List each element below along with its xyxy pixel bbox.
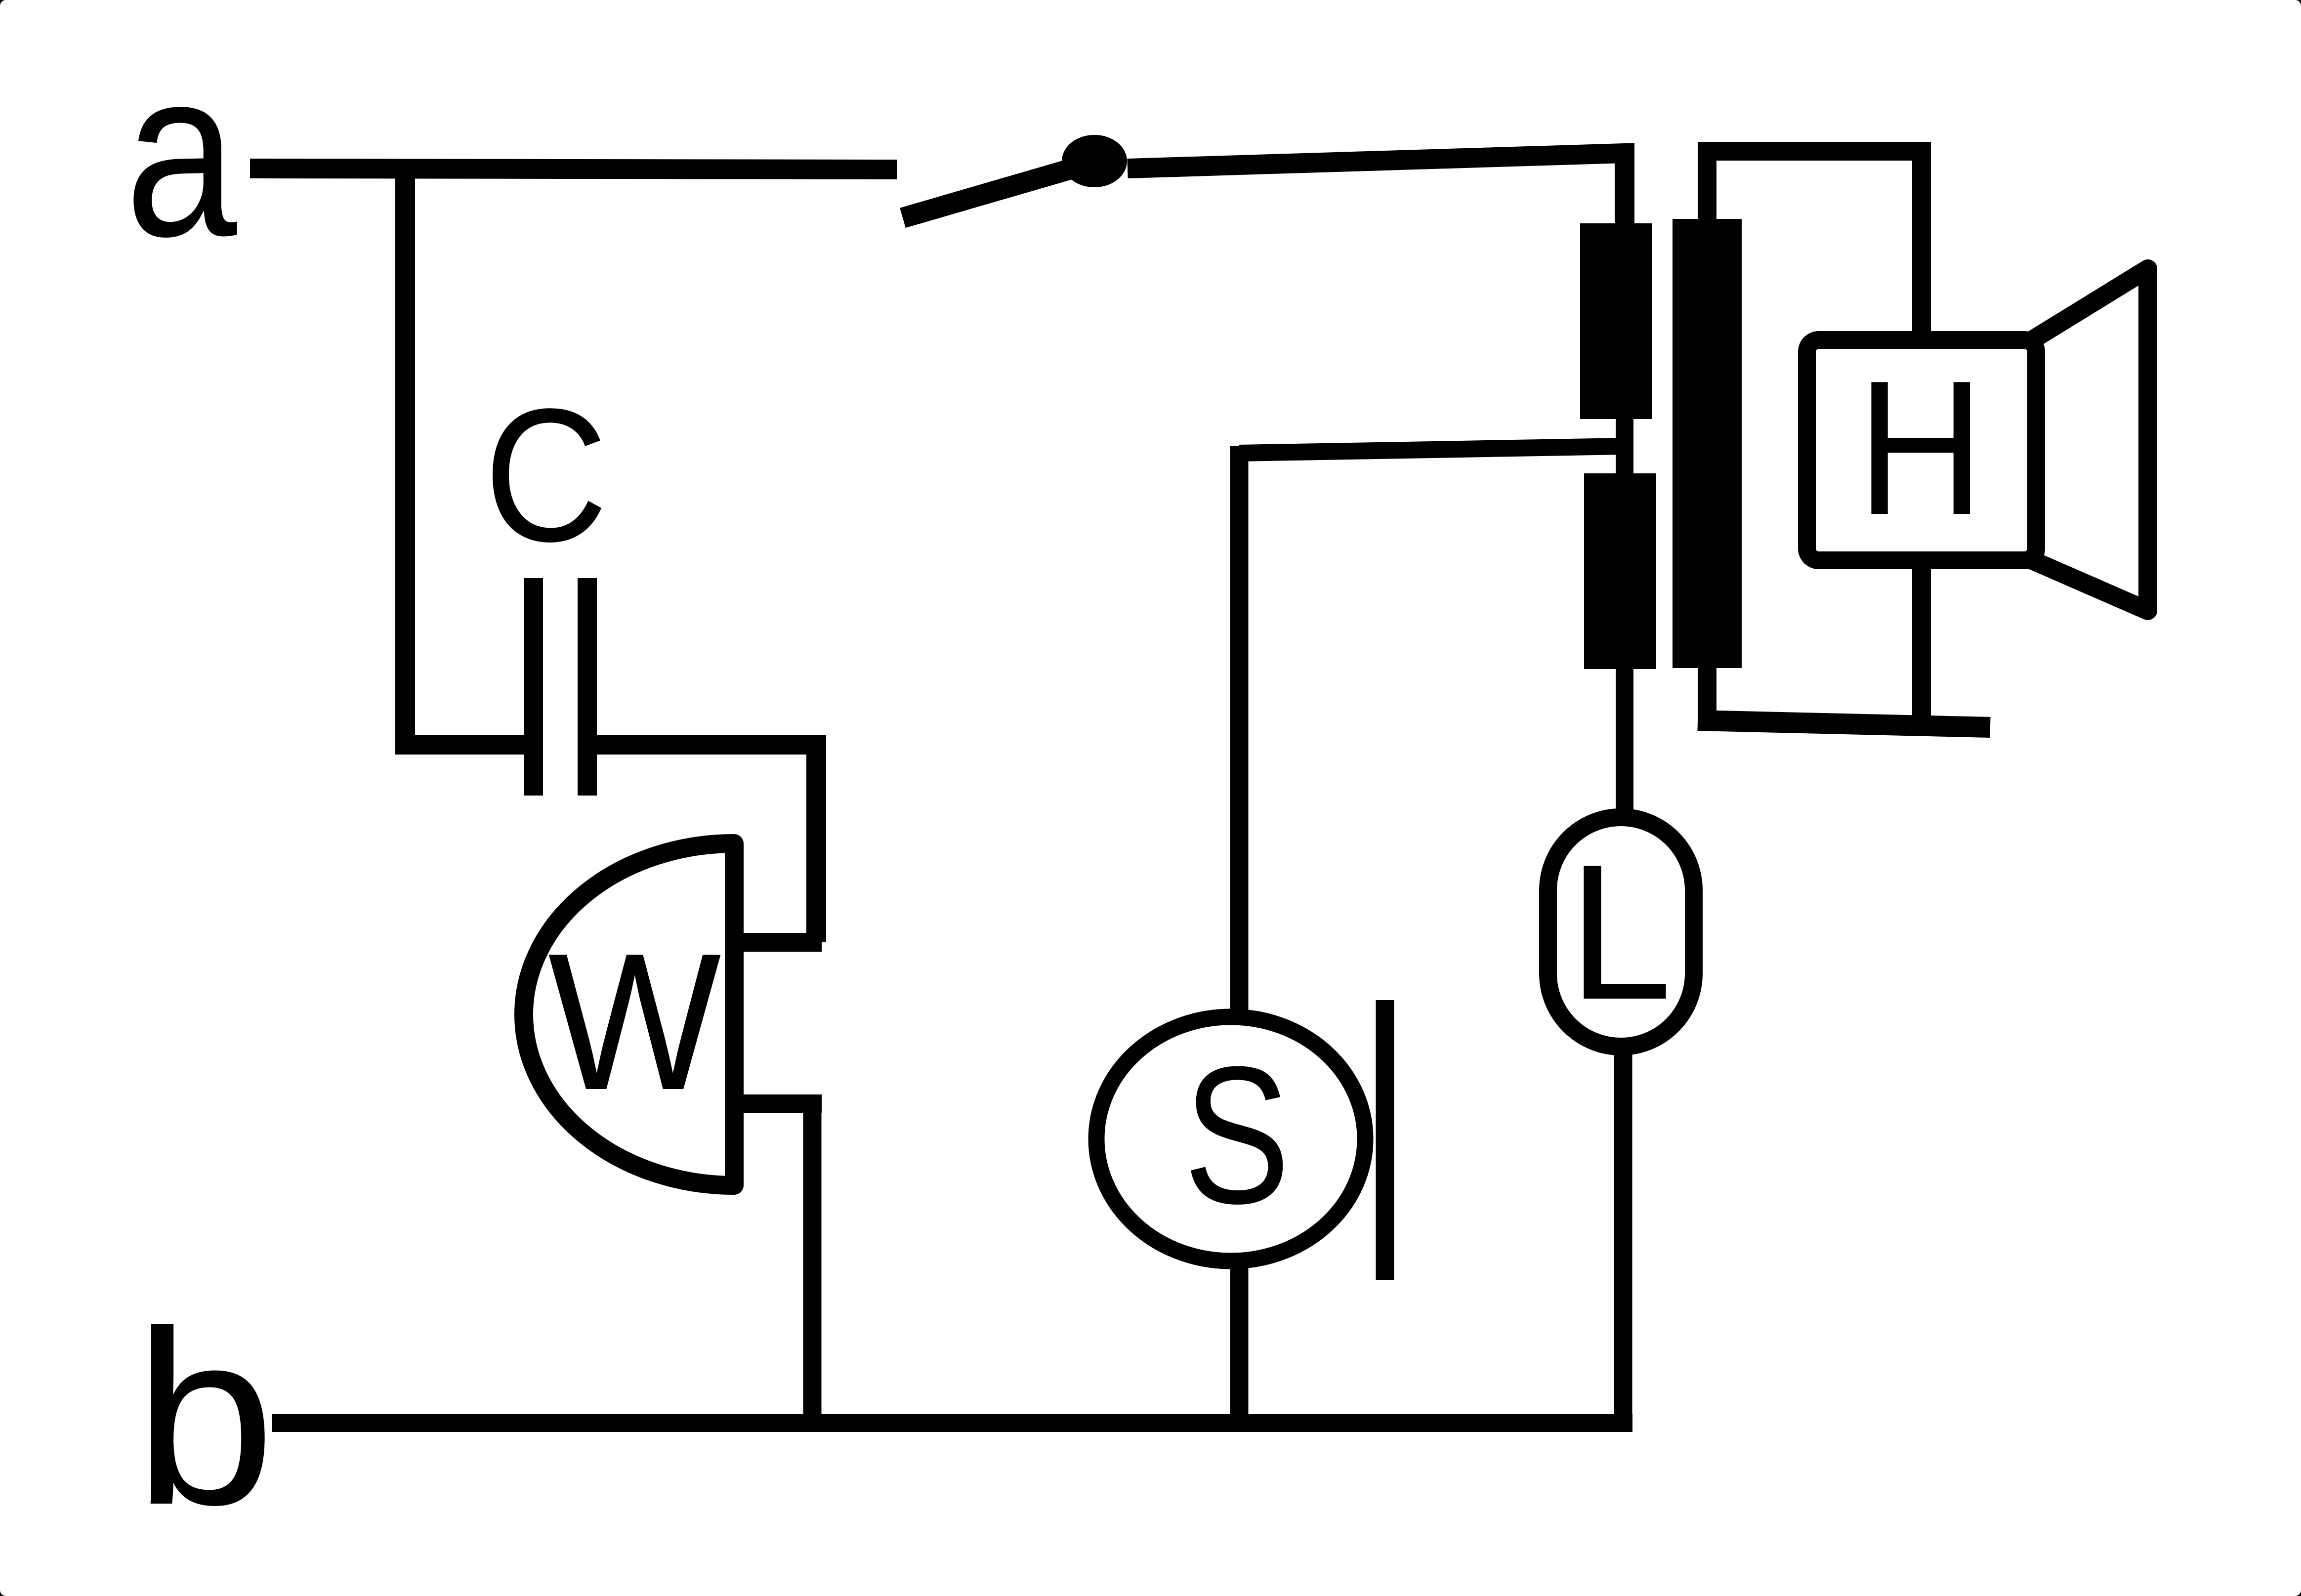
switch blade: [903, 164, 1089, 218]
wire from a to switch: [250, 168, 897, 169]
transformer secondary loop: [1707, 151, 1922, 730]
microphone W body (half disc): [524, 843, 734, 1185]
transformer core: [1673, 219, 1742, 668]
svg-text:a: a: [125, 19, 238, 286]
microphone W top stub: [734, 933, 822, 952]
microphone W bottom stub: [734, 1094, 822, 1113]
wire down to signal device S: [1230, 446, 1249, 1013]
svg-text:C: C: [484, 369, 608, 581]
wire secondary loop below H: [1912, 560, 1931, 726]
wire b (bottom bus): [272, 1414, 1632, 1432]
wire S to b wire: [1230, 1265, 1249, 1423]
wire L to b wire: [1614, 1047, 1632, 1432]
svg-text:L: L: [1569, 825, 1673, 1040]
signal device S (circle): [1096, 1017, 1365, 1261]
wire W to b wire: [803, 1104, 822, 1432]
svg-text:b: b: [134, 1280, 275, 1556]
wire L to transformer primary: [1616, 669, 1633, 817]
svg-text:S: S: [1184, 1026, 1291, 1245]
node junction: vertical drop from wire a down to capacitor run: [405, 168, 533, 745]
lamp L (capsule): [1548, 817, 1694, 1047]
transformer primary winding top: [1580, 223, 1652, 419]
capacitor C left plate: [524, 578, 543, 796]
contact bar beside S: [1376, 1000, 1394, 1280]
transformer primary winding bottom: [1584, 473, 1656, 669]
wire switch to transformer primary: [1128, 153, 1625, 223]
capacitor C right plate: [578, 578, 597, 796]
svg-text:W: W: [548, 913, 723, 1131]
secondary loop bottom edge: [1698, 720, 1990, 727]
svg-text:H: H: [1857, 341, 1984, 555]
horn (flare): [2032, 269, 2148, 611]
primary centre tap connector: [1616, 419, 1633, 473]
wire capacitor to microphone W: [597, 745, 816, 942]
wire middle: S branch to transformer centre tap: [1239, 446, 1625, 453]
switch pivot dot: [1062, 135, 1127, 187]
receiver H box: [1807, 340, 2036, 560]
